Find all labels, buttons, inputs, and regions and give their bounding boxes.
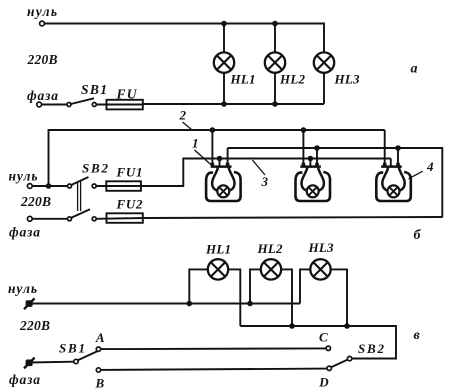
wire: neutral line (в): [29, 303, 300, 305]
lamp holder 1: centre pin: [219, 159, 221, 168]
node: HL1 bottom junction: [221, 101, 227, 107]
node: bus2-holder1 junction: [210, 127, 216, 133]
lamp holder 2: left pin: [302, 130, 304, 167]
wire: нуль to switch (б): [32, 185, 67, 187]
node: line3-holder1 junction: [217, 156, 223, 162]
leader for shell 4: [409, 171, 423, 179]
svg-text:нуль: нуль: [9, 169, 38, 184]
switch SB1 (в) lever: [78, 351, 98, 360]
contact A: [96, 347, 100, 351]
lamp HL1 (в): [208, 259, 228, 279]
switch SB2 (в) lever: [331, 360, 348, 368]
wire: neutral bus (a): [44, 24, 324, 53]
wire: HL1 right lead: [228, 269, 240, 326]
svg-text:1: 1: [192, 136, 199, 151]
wire through fuse FU2: [96, 217, 143, 220]
node: HL2 top junction: [272, 21, 278, 27]
node: HL2-return junction: [289, 323, 295, 329]
svg-text:4: 4: [426, 159, 434, 174]
switch SB1 contact: [92, 103, 96, 107]
svg-text:2: 2: [179, 108, 187, 123]
svg-text:FU2: FU2: [116, 197, 144, 212]
svg-text:HL2: HL2: [257, 241, 284, 256]
node: HL3-return junction: [344, 323, 350, 329]
wire through fuse FU1: [96, 185, 141, 187]
switch SB2 mechanical link: [77, 181, 79, 211]
wire: phase bus (a): [143, 103, 324, 105]
lamp holder 1: left pin: [211, 130, 213, 167]
wire through fuse FU: [96, 104, 143, 106]
svg-text:220В: 220В: [27, 52, 58, 67]
wire: HL2 top lead: [274, 24, 276, 53]
wire: HL1 bottom lead: [223, 73, 225, 104]
switch SB2 pole1 lever: [71, 177, 88, 185]
leader for wire 2: [183, 122, 192, 130]
svg-text:C: C: [319, 330, 328, 345]
wire: bus3 (б): [228, 148, 443, 218]
node: HL2 bottom junction: [272, 101, 278, 107]
wire: HL2 left lead: [250, 269, 261, 303]
svg-text:нуль: нуль: [8, 281, 37, 296]
leader for wire 3: [252, 160, 265, 175]
lamp holder 3: centre pin: [390, 159, 392, 168]
svg-text:SB1: SB1: [59, 341, 85, 356]
svg-text:220В: 220В: [20, 194, 51, 209]
node: bus3-holder3 junction: [395, 145, 401, 151]
svg-text:HL3: HL3: [308, 240, 335, 255]
lamp holder 2: right pin: [316, 148, 318, 167]
switch SB1 (в) pivot: [74, 359, 78, 363]
wire 3: centre-contact line (б): [141, 159, 391, 187]
svg-text:3: 3: [261, 174, 269, 189]
node: HL1 top junction: [221, 21, 227, 27]
lamp HL2: [265, 52, 285, 72]
fuse FU body: [107, 100, 143, 110]
fuse FU2 body: [107, 213, 143, 223]
lamp holder 1 body: [206, 167, 241, 201]
lamp holder 2: centre pin: [309, 159, 311, 168]
svg-text:нуль: нуль: [27, 4, 57, 19]
node: bus3-holder2 junction: [314, 145, 320, 151]
lamp holder 3: left pin: [384, 130, 386, 167]
terminal нуль (a): [40, 21, 45, 26]
switch SB2 (в) pivot: [347, 356, 351, 360]
svg-text:HL1: HL1: [205, 242, 231, 257]
svg-text:в: в: [414, 328, 421, 343]
contact B: [96, 368, 100, 372]
svg-text:б: б: [414, 228, 422, 243]
svg-text:фаза: фаза: [9, 372, 40, 387]
terminal нуль (б): [27, 184, 32, 189]
wire 2: top bus (б): [49, 130, 385, 186]
svg-text:SB1: SB1: [81, 82, 107, 97]
node: HL2-neutral junction: [247, 301, 253, 307]
switch SB1 lever: [71, 98, 94, 104]
contact D: [327, 366, 331, 370]
svg-text:HL2: HL2: [279, 72, 306, 87]
wire: bottom return bus (б): [143, 217, 443, 218]
wire: A to C: [101, 347, 326, 350]
terminal фаза (a): [37, 102, 42, 107]
node: bus2-holder2 junction: [301, 127, 307, 133]
svg-text:A: A: [95, 330, 105, 345]
svg-text:HL3: HL3: [334, 72, 361, 87]
terminal фаза (в) arrow: [24, 358, 35, 369]
wire: фаза to switch (б): [32, 218, 67, 220]
contact C: [326, 346, 330, 350]
svg-text:B: B: [95, 376, 105, 391]
switch SB2 pole2 pivot: [68, 217, 72, 221]
fuse FU1 body: [106, 181, 141, 191]
switch SB2 pole2 lever: [71, 209, 90, 218]
wire: HL3 right lead: [331, 269, 347, 326]
svg-text:фаза: фаза: [27, 88, 58, 103]
wire: фаза to SB1 (в): [29, 361, 74, 364]
lamp holder 3 body: [376, 167, 411, 201]
wire: HL2 right lead: [281, 269, 292, 326]
wire: HL3 bottom lead: [323, 73, 325, 104]
switch SB1 pivot: [67, 103, 71, 107]
wire: HL2 bottom lead: [274, 73, 276, 104]
lamp holder 2 body: [296, 167, 331, 201]
svg-text:D: D: [318, 375, 329, 390]
svg-text:SB2: SB2: [82, 161, 109, 176]
wire: B to D: [101, 369, 327, 370]
wire: HL3 left lead: [300, 269, 310, 303]
terminal фаза (б): [27, 216, 32, 221]
svg-text:220В: 220В: [19, 318, 50, 333]
svg-text:FU1: FU1: [116, 165, 143, 180]
lamp HL3: [314, 52, 334, 72]
wire: HL1 top lead: [223, 24, 225, 53]
switch SB2 pole2 contact: [92, 217, 96, 221]
lamp HL1: [214, 52, 234, 72]
leader for contact 1: [195, 150, 213, 166]
wire: lamp return bus (в): [240, 326, 396, 359]
lamp holder 1: right pin: [227, 148, 229, 167]
wire: HL1 left lead: [189, 269, 208, 303]
svg-text:а: а: [411, 62, 418, 77]
wire: фаза to switch (a): [42, 104, 67, 106]
node: line3-holder2 junction: [308, 156, 314, 162]
switch SB2 pole1 contact: [92, 184, 96, 188]
lamp HL3 (в): [310, 259, 330, 279]
terminal нуль (в) arrow: [24, 298, 35, 309]
svg-text:фаза: фаза: [9, 225, 40, 240]
switch SB2 pole1 pivot: [68, 184, 72, 188]
svg-text:SB2: SB2: [358, 341, 385, 356]
lamp holder 3: right pin: [397, 148, 399, 167]
lamp HL2 (в): [261, 259, 281, 279]
node: HL1-neutral junction: [187, 301, 193, 307]
node: нуль-bus2 junction: [46, 183, 52, 189]
svg-text:HL1: HL1: [230, 72, 256, 87]
